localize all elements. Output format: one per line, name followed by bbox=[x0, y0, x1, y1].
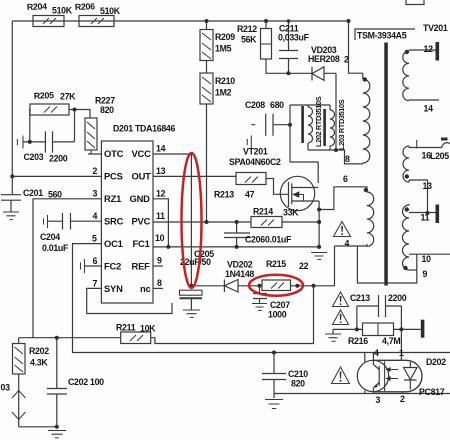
node junction C202 bottom bbox=[55, 425, 59, 429]
transformer secondary winding 12-14 bbox=[403, 50, 439, 101]
wire pin3 RZ1 down bbox=[33, 199, 101, 338]
svg-text:1M5: 1M5 bbox=[215, 44, 232, 54]
svg-text:0.01uF: 0.01uF bbox=[42, 243, 69, 253]
warning triangles C213 bbox=[333, 292, 349, 325]
wire bottom rail bbox=[274, 393, 450, 395]
svg-text:C213: C213 bbox=[350, 293, 370, 303]
inductor L202 RTD3510S bbox=[301, 96, 323, 150]
svg-text:33K: 33K bbox=[283, 208, 299, 218]
diode VD202 1N4148 bbox=[224, 260, 262, 293]
capacitor at FC2 pin6 bbox=[81, 259, 102, 273]
svg-text:C202: C202 bbox=[68, 377, 88, 387]
resistor R205 bbox=[30, 90, 76, 115]
wire pin5 OC1 down bbox=[73, 244, 450, 353]
node junction rail C210 bbox=[272, 351, 276, 355]
svg-text:C203: C203 bbox=[24, 152, 44, 162]
svg-text:VCC: VCC bbox=[132, 148, 152, 159]
wire pin6 to source node bbox=[319, 187, 334, 210]
wire R205 left node bbox=[29, 110, 30, 142]
svg-text:R206: R206 bbox=[75, 1, 96, 12]
capacitor C207 bbox=[253, 286, 290, 320]
node junction C202 top bbox=[55, 336, 59, 340]
svg-text:OTC: OTC bbox=[104, 148, 124, 159]
resistor R206 bbox=[75, 1, 121, 26]
node junction GND link-FC1 bbox=[166, 245, 170, 249]
svg-text:3: 3 bbox=[376, 395, 381, 405]
node junction VCC-supply row bbox=[189, 284, 193, 288]
top right clipped box bbox=[406, 0, 424, 5]
svg-text:9: 9 bbox=[423, 269, 428, 279]
node junction PVC-C206 bbox=[235, 220, 239, 224]
svg-text:R210: R210 bbox=[215, 76, 235, 86]
ground under C205 bbox=[183, 310, 200, 317]
annotation red ellipse VCC wire bbox=[182, 153, 202, 288]
svg-text:OC1: OC1 bbox=[104, 238, 123, 249]
transformer secondary winding 16-13 bbox=[403, 146, 442, 213]
svg-text:PC817: PC817 bbox=[419, 387, 445, 397]
svg-text:C207: C207 bbox=[270, 300, 290, 310]
svg-text:2: 2 bbox=[344, 55, 349, 65]
annotation red ellipse R215 bbox=[249, 275, 303, 296]
svg-text:2200: 2200 bbox=[388, 293, 407, 303]
svg-text:C206: C206 bbox=[245, 235, 265, 245]
capacitor C202 bbox=[47, 338, 104, 427]
svg-text:7: 7 bbox=[93, 279, 98, 289]
warning triangle opto box bbox=[332, 367, 350, 384]
wire SYN loop bbox=[87, 288, 172, 313]
resistor R227 bbox=[85, 96, 115, 151]
node junction C203 left bbox=[28, 140, 32, 144]
wire drain node vertical with C208 tap bbox=[290, 105, 318, 183]
svg-text:R213: R213 bbox=[214, 190, 234, 200]
svg-text:1N4148: 1N4148 bbox=[225, 269, 254, 279]
svg-text:10: 10 bbox=[155, 233, 165, 243]
wire bottom node row bbox=[19, 338, 121, 344]
terminal bar R216 right bbox=[421, 320, 425, 338]
warning triangle pin4 bbox=[334, 222, 351, 237]
svg-text:R212: R212 bbox=[237, 24, 257, 34]
svg-text:6: 6 bbox=[343, 174, 348, 184]
optocoupler D202 PC817 bbox=[357, 348, 446, 405]
wire pin2 down from bus bbox=[349, 21, 363, 73]
capacitor C210 bbox=[262, 353, 308, 394]
svg-text:FC1: FC1 bbox=[133, 238, 150, 249]
svg-text:L205: L205 bbox=[430, 151, 449, 161]
wire VD203 down to drain bus bbox=[335, 73, 337, 150]
capacitor C204 bbox=[40, 213, 101, 253]
svg-text:TV201: TV201 bbox=[423, 23, 448, 33]
wire nc stub bbox=[153, 287, 163, 289]
resistor R214 bbox=[251, 207, 299, 228]
wire R216 row bbox=[333, 328, 421, 330]
svg-text:1M2: 1M2 bbox=[215, 88, 232, 98]
svg-text:12: 12 bbox=[156, 189, 166, 199]
ground bottom left bbox=[48, 431, 66, 438]
svg-text:REF: REF bbox=[132, 261, 151, 272]
ground under C201 bbox=[3, 212, 19, 220]
svg-text:820: 820 bbox=[291, 379, 305, 389]
svg-text:11: 11 bbox=[156, 211, 165, 221]
wire R205 right node bbox=[69, 110, 90, 142]
svg-text:510K: 510K bbox=[52, 6, 73, 16]
wire supply row right to pin4 link bbox=[291, 246, 335, 286]
wire pin9 link bbox=[357, 246, 416, 283]
wire top bus bbox=[12, 20, 348, 22]
ground under C210 bbox=[273, 394, 275, 399]
node junction C211-R212 bottom bbox=[287, 71, 291, 75]
svg-text:R204: R204 bbox=[27, 1, 48, 12]
ground source bbox=[311, 253, 327, 260]
svg-text:8: 8 bbox=[345, 154, 350, 164]
node junction PCS pin2 bbox=[10, 174, 14, 178]
svg-text:4: 4 bbox=[93, 211, 98, 221]
svg-text:10: 10 bbox=[422, 254, 432, 264]
svg-text:47: 47 bbox=[245, 190, 255, 200]
wire OUT row to gate bbox=[153, 176, 289, 194]
node junction R214-source bbox=[317, 220, 321, 224]
transformer core bbox=[384, 43, 388, 286]
node junction PVC-R209R210 bbox=[205, 220, 209, 224]
capacitor C206 bbox=[224, 222, 292, 247]
capacitor C211 bbox=[278, 21, 310, 73]
svg-text:L202 RTD3510S: L202 RTD3510S bbox=[314, 96, 323, 147]
inductor L205 clipped bbox=[442, 143, 450, 148]
node junction after R215 bbox=[295, 284, 299, 288]
svg-text:L203 RTD3510S: L203 RTD3510S bbox=[337, 99, 346, 150]
svg-text:0.01uF: 0.01uF bbox=[265, 235, 292, 245]
svg-text:27K: 27K bbox=[60, 92, 76, 102]
transformer T201 TSM-3934A5 label bracket bbox=[355, 29, 415, 40]
svg-text:R209: R209 bbox=[215, 32, 235, 42]
svg-text:C201: C201 bbox=[23, 188, 43, 198]
wire PVC row bbox=[153, 221, 251, 223]
svg-text:4.3K: 4.3K bbox=[30, 358, 48, 368]
svg-text:R214: R214 bbox=[253, 207, 273, 217]
wire L bottom bus to pin8 bbox=[308, 150, 363, 164]
inductor L203 RTD3510S bbox=[323, 99, 346, 150]
wire R209-R210 chain down to PVC bbox=[206, 21, 208, 222]
svg-text:56K: 56K bbox=[241, 35, 257, 45]
svg-text:nc: nc bbox=[140, 283, 151, 294]
resistor R202 bbox=[13, 344, 50, 375]
node junction bus R209 bbox=[205, 19, 209, 23]
svg-text:4,7M: 4,7M bbox=[382, 336, 400, 346]
svg-text:13: 13 bbox=[156, 166, 166, 176]
svg-text:12: 12 bbox=[424, 44, 434, 54]
terminal cap right edge bbox=[441, 138, 448, 141]
IC D201 TDA16846 bbox=[101, 124, 175, 304]
svg-text:03: 03 bbox=[1, 383, 11, 393]
capacitor C201 bbox=[1, 188, 62, 212]
svg-text:R211: R211 bbox=[116, 323, 136, 333]
svg-text:100: 100 bbox=[90, 377, 104, 387]
svg-text:OUT: OUT bbox=[132, 171, 152, 182]
svg-text:VT201: VT201 bbox=[243, 147, 268, 157]
wire L tops bus bbox=[290, 104, 330, 106]
svg-text:HER208: HER208 bbox=[308, 54, 340, 64]
svg-text:PCS: PCS bbox=[104, 171, 123, 182]
svg-text:VD202: VD202 bbox=[227, 260, 253, 270]
wire supply row bbox=[191, 285, 224, 287]
svg-text:FC2: FC2 bbox=[104, 261, 121, 272]
svg-text:10K: 10K bbox=[140, 324, 156, 334]
svg-text:1: 1 bbox=[399, 348, 404, 358]
node junction R211 rail-supply row bbox=[312, 284, 316, 288]
svg-text:2: 2 bbox=[400, 394, 405, 404]
wire R216 left to ground bbox=[332, 329, 334, 333]
wire opto pin1 up bbox=[400, 329, 402, 360]
terminal bar pin12 bbox=[436, 42, 440, 61]
svg-text:6: 6 bbox=[93, 256, 98, 266]
node junction bus R212 bbox=[264, 19, 268, 23]
node junction pin13-pin11 bbox=[426, 211, 430, 215]
svg-text:13: 13 bbox=[423, 181, 433, 191]
terminal bar pin11 bbox=[436, 205, 440, 224]
svg-text:RZ1: RZ1 bbox=[104, 193, 121, 204]
wire R214 right to source node bbox=[282, 221, 319, 223]
svg-text:C204: C204 bbox=[40, 232, 60, 242]
svg-text:D202: D202 bbox=[426, 357, 446, 367]
wire R211 right step to rail bbox=[151, 286, 314, 344]
wire REF stub bbox=[153, 265, 163, 267]
capacitor C205 electrolytic bbox=[180, 249, 215, 310]
wire pin2 PCS bbox=[12, 175, 101, 177]
wire source chain down bbox=[318, 201, 320, 249]
svg-text:D201 TDA16846: D201 TDA16846 bbox=[113, 124, 176, 134]
wire GND pin12 link bbox=[153, 199, 168, 247]
svg-text:560: 560 bbox=[48, 190, 62, 200]
svg-text:R216: R216 bbox=[348, 336, 368, 346]
node junction bus C211 bbox=[287, 19, 291, 23]
resistor R212 bbox=[237, 24, 272, 59]
resistor R209 bbox=[200, 30, 235, 61]
wire R227 to OTC pin1 bbox=[88, 150, 101, 154]
svg-text:SYN: SYN bbox=[104, 283, 123, 294]
wire bottom left row bbox=[19, 426, 57, 428]
svg-text:R205: R205 bbox=[34, 90, 55, 101]
ground under C207 bbox=[252, 304, 267, 311]
svg-text:2: 2 bbox=[93, 166, 98, 176]
svg-text:680: 680 bbox=[270, 100, 284, 110]
svg-text:8: 8 bbox=[157, 278, 162, 288]
transformer primary winding 2-8 bbox=[363, 73, 370, 164]
ground R216 bbox=[325, 334, 341, 341]
resistor R204 bbox=[27, 1, 73, 26]
node junction source-pin6 bbox=[317, 208, 321, 212]
svg-text:22: 22 bbox=[299, 261, 309, 271]
svg-text:5: 5 bbox=[92, 234, 97, 244]
svg-text:820: 820 bbox=[100, 105, 114, 115]
svg-text:R215: R215 bbox=[266, 259, 286, 269]
resistor R210 bbox=[200, 73, 235, 104]
svg-text:4: 4 bbox=[374, 348, 379, 358]
svg-text:1000: 1000 bbox=[268, 310, 287, 320]
resistor R216 bbox=[348, 323, 400, 346]
suppressor 03 bbox=[1, 374, 26, 427]
resistor R215 bbox=[262, 259, 309, 291]
svg-text:14: 14 bbox=[156, 144, 166, 154]
svg-text:C210: C210 bbox=[288, 369, 308, 379]
svg-text:PVC: PVC bbox=[132, 216, 151, 227]
wire R212 stubs bbox=[266, 21, 312, 73]
svg-text:14: 14 bbox=[424, 104, 434, 114]
svg-text:2200: 2200 bbox=[49, 154, 68, 164]
transformer primary winding 6-4 bbox=[334, 187, 374, 247]
resistor R213 bbox=[214, 173, 266, 200]
svg-text:TSM-3934A5: TSM-3934A5 bbox=[357, 31, 407, 41]
svg-text:9: 9 bbox=[157, 256, 162, 266]
svg-text:R202: R202 bbox=[29, 346, 49, 356]
node junction R205-R227 bbox=[73, 108, 77, 112]
diode VD203 HER208 bbox=[308, 45, 340, 81]
svg-text:0,033uF: 0,033uF bbox=[278, 33, 310, 43]
svg-text:4: 4 bbox=[345, 239, 350, 249]
transistor VT201 MOSFET bbox=[229, 147, 319, 211]
transformer secondary winding 11-9 bbox=[403, 204, 450, 270]
wire pin4 link row bbox=[335, 245, 367, 247]
node junction C207 tap bbox=[258, 284, 262, 288]
svg-text:510K: 510K bbox=[100, 6, 121, 16]
node junction FC1-source bbox=[317, 245, 321, 249]
capacitor C208 bbox=[245, 100, 290, 149]
svg-text:R227: R227 bbox=[95, 96, 115, 106]
svg-text:3: 3 bbox=[93, 189, 98, 199]
svg-text:C208: C208 bbox=[245, 100, 265, 110]
node junction C208-drain vertical bbox=[288, 123, 292, 127]
svg-text:GND: GND bbox=[130, 193, 151, 204]
resistor R211 bbox=[116, 323, 156, 344]
capacitor C213 bbox=[350, 293, 407, 329]
node junction FC1-C206 bbox=[235, 245, 239, 249]
wire VCC pin14 bbox=[153, 154, 191, 288]
node junction VD203-L bus bbox=[334, 148, 338, 152]
svg-text:SRC: SRC bbox=[104, 216, 124, 227]
wire FC1 row bbox=[153, 246, 319, 248]
svg-text:SPA04N60C2: SPA04N60C2 bbox=[229, 157, 281, 167]
capacitor C203 bbox=[17, 131, 74, 163]
wire left vertical bbox=[11, 21, 13, 195]
